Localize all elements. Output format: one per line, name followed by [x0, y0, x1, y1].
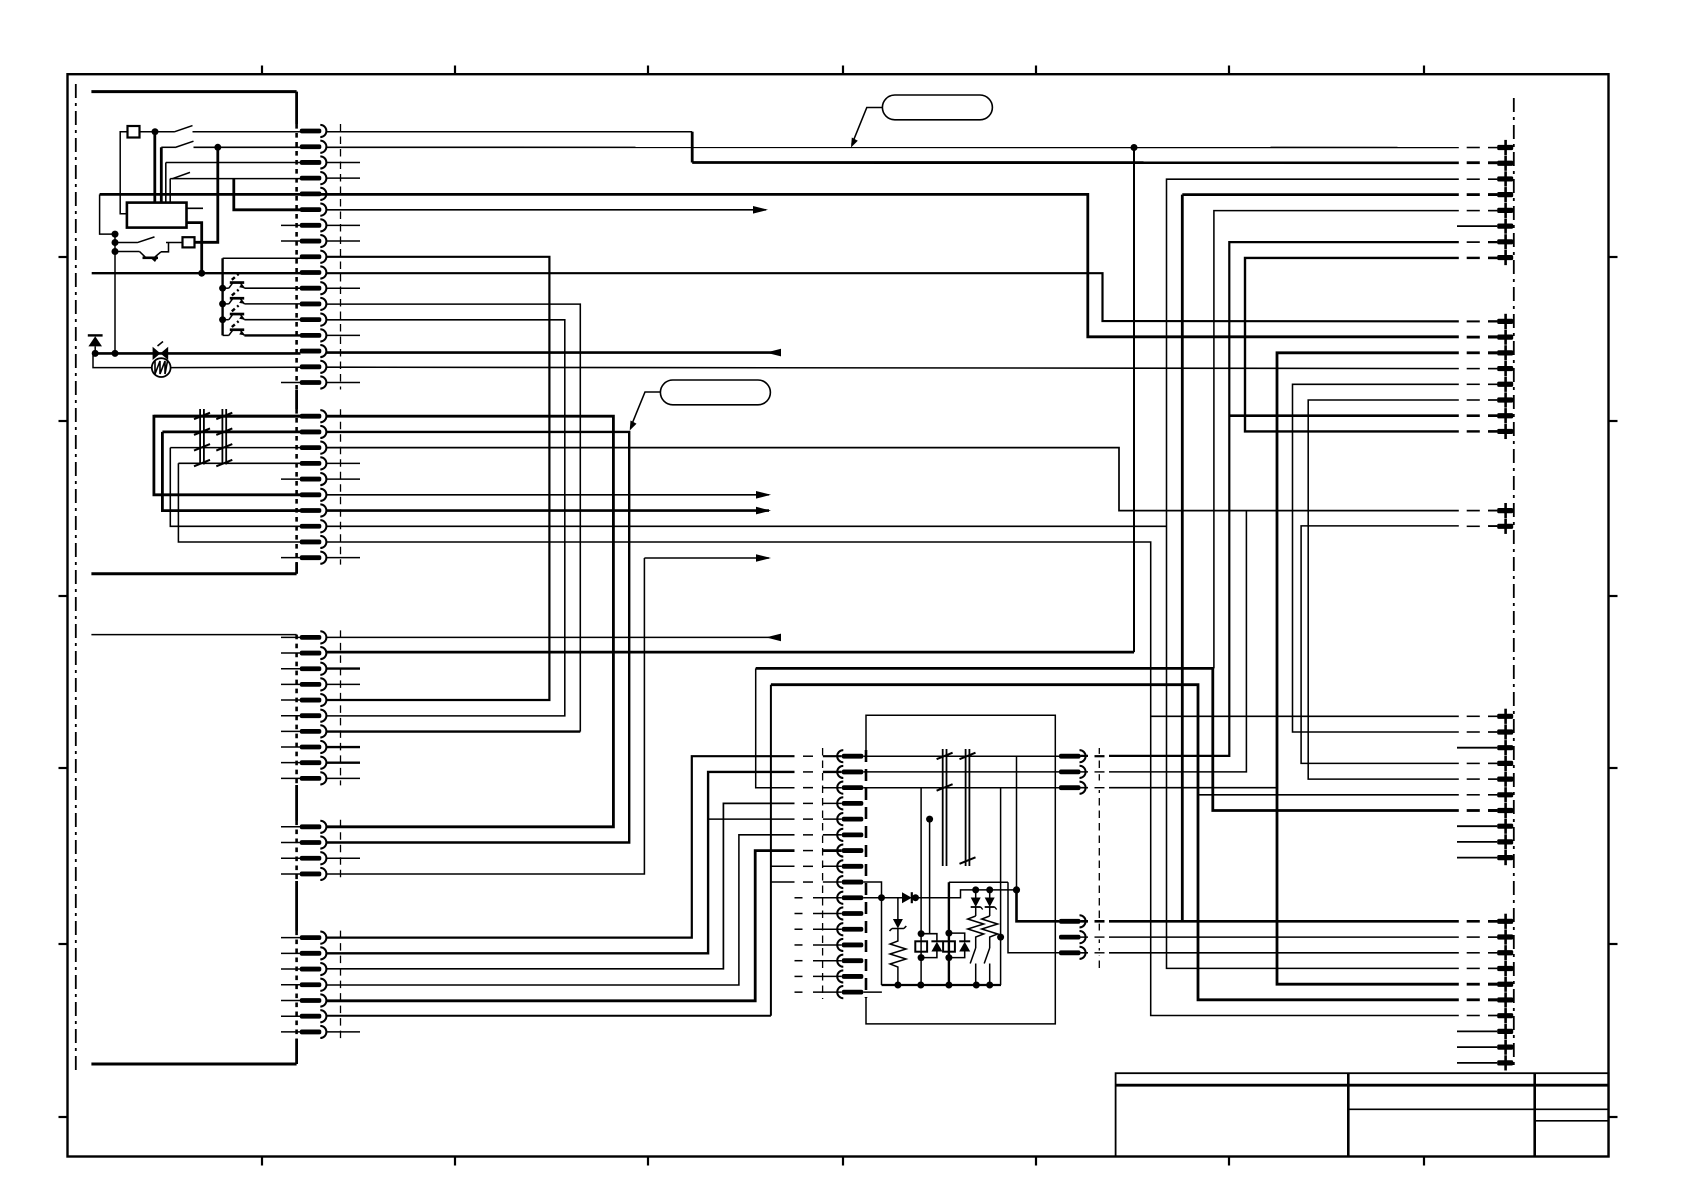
connector CN-M pin 15 [837, 970, 863, 982]
CN-R3 pin 9 stub [1457, 841, 1497, 843]
connector J4 pin 1 [300, 821, 327, 833]
wire M6 to J5-4 [327, 835, 795, 985]
connector CN-R1 pin 4 [1497, 187, 1513, 202]
connector J1 pin 17 right stub [327, 382, 360, 384]
connector CN-N pin 3 [1059, 782, 1086, 794]
switch SW4 blade [137, 237, 155, 243]
connector J5 pin 1 [300, 932, 327, 944]
title block right row line 1 [1535, 1108, 1609, 1110]
connector J1 pin 2 [300, 141, 327, 153]
wire M8 lead [823, 865, 842, 867]
relay RL1 box [127, 203, 187, 228]
connector J1 pin 8 [300, 235, 327, 247]
wire SW4 to D2 box [166, 242, 183, 244]
connector CN-R4 pin 8 [1497, 1024, 1513, 1039]
connector CN-M pin 11 [837, 907, 863, 919]
wire M1 to J5-1 [327, 756, 795, 937]
bus J1-1 to CN-R1 pin 2 [692, 161, 1497, 164]
connector CN-R1 pin 3 [1497, 171, 1513, 186]
wire J1-13 to J3-6 [327, 320, 565, 716]
connector CN-R2 pin 6 [1497, 392, 1513, 407]
connector J1 pin 4 [300, 172, 327, 184]
wire J3-9 right stub [327, 762, 360, 764]
connector J1 pin 10 [300, 266, 327, 278]
wire CN-R3-6 feed [1198, 794, 1497, 796]
wire J2-8 long [327, 525, 1167, 527]
junction node k [878, 894, 885, 901]
wire arrow stub row 558 [644, 557, 769, 559]
connector J1 pin 1 [300, 125, 327, 137]
wire CN-R1 pin 4 feed [1182, 193, 1497, 196]
connector CN-R1 pin 7 [1497, 234, 1513, 249]
wire M9 wire [771, 881, 795, 883]
bus CN-R1-3 to CN-R4-4 [1167, 179, 1498, 968]
callout balloon 1 [882, 95, 992, 120]
offpage arrow 5 [756, 554, 771, 562]
connector J4 pin 3 right stub [327, 857, 360, 859]
transistor Q0 collector slant [140, 252, 147, 258]
connector CN-R3 pin 1 [1497, 709, 1513, 724]
transistor Q3 [219, 306, 300, 324]
connector CN-N pin 4 [1059, 915, 1086, 927]
connector J1 pin 15 [300, 345, 327, 357]
right boundary dash-dot line [1513, 98, 1515, 1067]
connector CN-M pin 6 [837, 829, 863, 841]
sub-circuit left rail [881, 898, 883, 985]
ECU block B top edge [91, 634, 296, 636]
connector CN-M pin 8 break dash [803, 865, 813, 867]
wire N2 right [1081, 511, 1247, 772]
bus row 668 to CN-R3 pin 7 [756, 668, 1497, 810]
junction node g [92, 350, 99, 357]
connector CN-M pin 16 [837, 986, 863, 998]
connector CN-R3 pin 8 [1497, 819, 1513, 834]
wire to transistor Q0 [115, 251, 140, 253]
junction node e [112, 248, 119, 255]
wire M3 through [863, 787, 1059, 789]
wire M10 diode lead [863, 897, 902, 899]
wire D3 to zener top rail [916, 890, 1017, 898]
ground rail [882, 984, 1002, 986]
connector CN-R3 pin 3 [1497, 740, 1513, 755]
bus CN-R2-6 to CN-R3-5 [1308, 400, 1497, 779]
incoming arrow 2 [766, 349, 781, 357]
CN-R4 pin 9 stub [1457, 1046, 1497, 1048]
connector J1 pin 9 [300, 251, 327, 263]
junction node w [945, 930, 952, 937]
callout 1 arrowhead [851, 138, 858, 148]
connector J3 pin 4 [300, 678, 327, 690]
connector J2 pin 5 [300, 473, 327, 485]
connector CN-M pin 2 [837, 766, 863, 778]
zener ZD2 + resistor R2 + switch [968, 890, 984, 985]
connector CN-R4 pin 3 [1497, 945, 1513, 960]
callout 1 leader [852, 108, 883, 145]
connector CN-M pin 13 [837, 939, 863, 951]
connector J2 pin 3 [300, 442, 327, 454]
wire M5 tee [708, 818, 794, 820]
wire J2-4 left lead [178, 462, 300, 464]
wire relay to J1 pin 3 (vertical) [165, 163, 167, 203]
twisted pair marks at x=202 [194, 409, 210, 466]
callout 2 leader [631, 392, 661, 428]
connector J1 pin 3 right stub [327, 161, 360, 163]
diode box D2 (small square) [183, 237, 195, 247]
connector J3 pin 9 [300, 757, 327, 769]
wire bus668 down to M pin 3 [756, 668, 795, 787]
connector CN-M pin 8 [837, 860, 863, 872]
CN-R3 pin 3 stub [1457, 747, 1497, 749]
diode D5 bar [959, 940, 970, 942]
wire relay RL1 to power node (vertical) [187, 223, 202, 274]
sense line (vertical) [114, 234, 116, 353]
bus J1-10 long [327, 273, 1498, 321]
diode D1 triangle [88, 336, 102, 346]
bus CN-R1-8 to CN-R2-8 [1245, 258, 1497, 432]
ECU connector boundary line [295, 92, 298, 1064]
junction node i [1131, 144, 1138, 151]
connector CN-M pin 10 [837, 892, 863, 904]
connector CN-M pin 5 [837, 813, 863, 825]
connector CN-R2 pin 8 [1497, 424, 1513, 439]
diode D4 loop bottom [921, 952, 937, 958]
connector CN-M pin 7 [837, 844, 863, 856]
connector J5 pin 6 [300, 1010, 327, 1022]
connector J3 pin 2 [300, 647, 327, 659]
wire M8 tee [771, 865, 795, 867]
wire J1-9 to J3-5 [327, 257, 550, 700]
connector J3 pin 3 [300, 663, 327, 675]
wire J3-7 lead [327, 730, 581, 732]
title block header line [1116, 1084, 1609, 1087]
connector J3 pin 7 [300, 725, 327, 737]
wire J1-6 offpage arrow [327, 209, 766, 211]
diode D5 loop bottom [949, 952, 965, 958]
connector CN-M pin 2 break dash [803, 771, 813, 773]
connector CN-M pin 4 [837, 797, 863, 809]
wire M1 lead [823, 755, 842, 757]
twisted pair marks at x=944.6 [937, 749, 953, 866]
junction node f [198, 270, 205, 277]
junction node q [917, 982, 924, 989]
connector J2 pin 2 [300, 426, 327, 438]
connector CN-R2 pin 4 [1497, 361, 1513, 376]
connector J5 pin 2 left stub [281, 952, 301, 954]
connector J5 pin 4 left stub [281, 984, 301, 986]
connector J4 inner dashed line [340, 820, 342, 881]
wire J2-6 offpage arrow [327, 494, 769, 496]
connector J3 pin 10 left stub [281, 777, 301, 779]
connector J5 pin 7 right stub [327, 1031, 360, 1033]
bus vertical x1182 [1181, 195, 1184, 922]
connector J4 pin 4 left stub [281, 873, 301, 875]
connector J3 pin 7 left stub [281, 730, 301, 732]
junction node m [972, 886, 979, 893]
wire to J4-4 [327, 558, 645, 874]
wire SW2 to J1 pin 2 [194, 146, 301, 148]
connector CN-R2 pin 1 [1497, 314, 1513, 329]
wire N4 to CN-R4 pin 1 [1081, 920, 1498, 923]
wire N3 right [1081, 787, 1278, 789]
connector J3 pin 10 [300, 772, 327, 784]
wire D2 to node b (vertical) [195, 147, 218, 242]
wire J1-16 to CN-R2 pin 4 [327, 367, 1498, 368]
connector CN-N pin 2 [1059, 766, 1086, 778]
connector J2 pin 8 [300, 520, 327, 532]
connector J1 pin 14 [300, 329, 327, 341]
inline connector joints at CN-N [1088, 754, 1109, 955]
title block right row line 2 [1535, 1120, 1609, 1122]
wire J2-3 to CN-R2b pin 1 [327, 448, 1498, 511]
connector J5 pin 4 [300, 979, 327, 991]
wire J2-2 to J4-2 [327, 432, 630, 843]
wire M4 to J5-3 [327, 803, 795, 968]
connector CN-M boundary dashed line [865, 750, 868, 998]
wire SW1 to J1 pin 1 [193, 131, 301, 133]
connector J5 pin 7 [300, 1026, 327, 1038]
wire relay to SW2 (vertical) [160, 147, 163, 202]
connector J3 pin 10 right stub [327, 777, 360, 779]
connector J3 pin 6 left stub [281, 715, 301, 717]
bus CN-R2-5 to CN-R3-2 [1293, 384, 1498, 732]
junction node d [112, 239, 119, 246]
connector J3 pin 5 left stub [281, 699, 301, 701]
diode D3 triangle [902, 892, 912, 903]
connector CN-M pin 7 break dash [803, 850, 813, 852]
wire J2-1 to J4-1 [327, 416, 614, 827]
wire F1 to switch SW1 [140, 131, 175, 133]
CN-R3 pin 8 stub [1457, 825, 1497, 827]
connector J1 pin 11 [300, 282, 327, 294]
resistor R1 (zigzag) [890, 929, 906, 986]
connector CN-M pin 3 break dash [803, 787, 813, 789]
wire M4 lead [823, 802, 842, 804]
connector J4 pin 3 [300, 852, 327, 864]
wire M2 through [863, 771, 1059, 773]
connector J1 inner dashed line [340, 124, 342, 390]
connector J2 inner dashed line [340, 409, 342, 564]
wire node o to N4 [1017, 890, 1060, 921]
connector CN-R1 pin 2 [1497, 156, 1513, 171]
connector J1 pin 6 [300, 204, 327, 216]
offpage arrow 3 [756, 491, 771, 499]
connector CN-M pin 1 [837, 750, 863, 762]
wire J1-1 to bus step [327, 131, 693, 133]
connector J2 pin 4 [300, 457, 327, 469]
wire J1-2 to CN-R1 pin 1 [327, 146, 1498, 148]
wire J2-3 left lead [170, 447, 300, 449]
connector J3 pin 1 [300, 631, 327, 643]
wire M2 to J5-2 [327, 772, 795, 953]
connector J3 pin 5 [300, 694, 327, 706]
connector J3 pin 8 [300, 741, 327, 753]
connector CN-R3 pin 7 [1497, 803, 1513, 818]
connector J2 pin 5 right stub [327, 478, 360, 480]
connector J3 pin 4 left stub [281, 683, 301, 685]
connector J5 pin 1 left stub [281, 937, 301, 939]
wire J1-12 to J3-7 [327, 304, 581, 731]
connector CN-M pin 16 inner stub [863, 991, 882, 993]
junction node r [945, 982, 952, 989]
varistor VA1 right triangle [160, 347, 168, 360]
connector J2 pin 10 left stub [281, 557, 301, 559]
switch SW2 blade [175, 141, 194, 147]
noise filter wire row [93, 352, 301, 355]
connector CN-M pin 1 break dash [803, 755, 813, 757]
wire SW2 lead [161, 146, 175, 148]
wire CN-R2-7 feed [1229, 414, 1497, 417]
offpage arrow 1 [753, 206, 768, 214]
wire J2-2 to J2-7 loop [162, 432, 300, 511]
connector CN-N pin 5 [1059, 931, 1086, 943]
power bus corner [100, 194, 115, 234]
switch SW1 blade [174, 126, 193, 132]
wire J2-7 offpage arrow [327, 509, 769, 512]
wire M2 lead [823, 771, 842, 773]
junction node c [112, 231, 119, 238]
wire SW3 to J1 pin 4 [170, 178, 300, 180]
power bus B+ row [92, 272, 301, 274]
connector CN-N pin 6 [1059, 947, 1086, 959]
junction node o [1013, 886, 1020, 893]
wire M7 to J5-5 [327, 851, 795, 1001]
zener ZD3 + resistor R3 + switch [982, 890, 998, 985]
connector J1 pin 13 [300, 314, 327, 326]
junction node n [986, 886, 993, 893]
coil K1 vertical [920, 788, 922, 985]
connector J1 pin 7 [300, 219, 327, 231]
zener ZD1 lead [897, 898, 899, 920]
connector CN-M pin 15 left stub [795, 975, 842, 977]
ECU block A bottom edge [91, 572, 296, 575]
left boundary dash-dot line [75, 84, 77, 1071]
connector J1 pin 11 right stub [327, 287, 360, 289]
connector J3 pin 2 left stub [281, 652, 301, 654]
connector CN-R3 pin 10 [1497, 850, 1513, 865]
connector CN-M pin 10 left stub [795, 897, 842, 899]
incoming arrow 6 [766, 634, 781, 642]
connector CN-R3 pin 4 [1497, 756, 1513, 771]
ECU block B bottom edge [91, 1063, 296, 1066]
callout balloon 2 [660, 380, 770, 405]
callout 2 arrowhead [630, 421, 637, 431]
diode D4 triangle [931, 942, 942, 952]
connector CN-M pin 13 left stub [795, 944, 842, 946]
connector CN-M pin 4 break dash [803, 802, 813, 804]
connector J1 pin 16 [300, 361, 327, 373]
connector J2 pin 10 right stub [327, 557, 360, 559]
wire M1 through [863, 755, 1059, 757]
connector J3 inner dashed line [340, 630, 342, 785]
connector CN-M pin 14 [837, 955, 863, 967]
wire J1 pin 9 from rail [223, 257, 301, 259]
transistor Q0 emitter arrow [151, 258, 158, 262]
connector J1 pin 7 right stub [327, 224, 360, 226]
bus CN-R1-7 to CN-N1 [1081, 242, 1498, 756]
diode D1 lead [94, 346, 96, 353]
wire branch to J1 pin 6 [234, 179, 301, 210]
CN-R1 pin 6 stub [1457, 225, 1497, 227]
connector J5 pin 6 left stub [281, 1015, 301, 1017]
connector J2 pin 10 [300, 552, 327, 564]
connector J4 pin 2 [300, 836, 327, 848]
connector J3 pin 4 right stub [327, 683, 360, 685]
connector J5 pin 3 left stub [281, 968, 301, 970]
twisted pair marks at x=967.5 [960, 749, 976, 866]
junction node t [986, 982, 993, 989]
connector J5 pin 5 [300, 994, 327, 1006]
wire M9 lead [823, 881, 842, 883]
diode D1 bar [88, 334, 103, 336]
connector J4 pin 1 left stub [281, 826, 301, 828]
title block middle row line [1348, 1108, 1534, 1110]
connector J5 pin 3 [300, 963, 327, 975]
diode D4 bar [931, 940, 942, 942]
connector J1 pin 17 [300, 376, 327, 388]
wire M9 to J5-6 [327, 1015, 771, 1017]
wire inner box to N6 [1008, 882, 1059, 953]
junction node p [894, 982, 901, 989]
connector J5 pin 2 [300, 947, 327, 959]
connector J1 pin 4 right stub [327, 177, 360, 179]
connector CN-R4 pin 10 [1497, 1055, 1513, 1070]
bus CN-R2b-2 to CN-R3-4 [1301, 526, 1497, 764]
connector CN-R1 pin 8 [1497, 250, 1513, 265]
connector CN-M pin 11 left stub [795, 913, 842, 915]
wire heater to J1 pin 16 [171, 366, 301, 368]
connector J4 pin 2 left stub [281, 842, 301, 844]
heater HT1 circle [152, 358, 171, 377]
connector J3 pin 8 left stub [281, 746, 301, 748]
connector CN-M pin 6 break dash [803, 834, 813, 836]
connector CN-R2b pin 1 [1497, 503, 1513, 518]
junction node b [214, 144, 221, 151]
varistor VA1 tick [158, 342, 164, 347]
relay block outline [866, 715, 1055, 1024]
transistor Q1 [219, 274, 300, 292]
inner box top edge [949, 881, 1008, 883]
connector J2 pin 6 [300, 489, 327, 501]
connector CN-R3 pin 9 [1497, 834, 1513, 849]
wire CN-R3-1 feed [1151, 715, 1498, 717]
title block outline [1116, 1073, 1609, 1156]
connector CN-R3 pin 6 [1497, 787, 1513, 802]
transistor Q4 [223, 321, 301, 335]
junction node u [918, 930, 925, 937]
connector CN-R1 pin 1 [1497, 140, 1513, 155]
bus CN-R2-3 to CN-R4-5 [1277, 353, 1497, 984]
wire N5 feed vertical [1000, 788, 1002, 985]
wire N5 to CN-R4 pin 2 [1081, 936, 1498, 938]
connector CN-M pin 5 break dash [803, 818, 813, 820]
wire J1-15 incoming arrow [327, 351, 779, 354]
wire M5 branch down [921, 819, 930, 934]
connector J1 pin 17 left stub [281, 382, 301, 384]
connector CN-M pin 9 [837, 876, 863, 888]
connector CN-R2 pin 5 [1497, 377, 1513, 392]
connector CN-M pin 16 left stub [795, 991, 842, 993]
connector J3 pin 6 [300, 710, 327, 722]
relay coil K1 box [915, 941, 927, 951]
wire relay to SW3 (vertical) [169, 179, 171, 203]
connector J1 pin 14 right stub [327, 334, 360, 336]
wire J2-1 left lead [154, 415, 301, 418]
connector CN-R2 pin 2 [1497, 330, 1513, 345]
diode D4 loop [921, 934, 937, 942]
connector J3 pin 3 left stub [281, 668, 301, 670]
wire Q0 emitter up [161, 243, 169, 252]
wire J3-3 right stub [327, 667, 360, 669]
